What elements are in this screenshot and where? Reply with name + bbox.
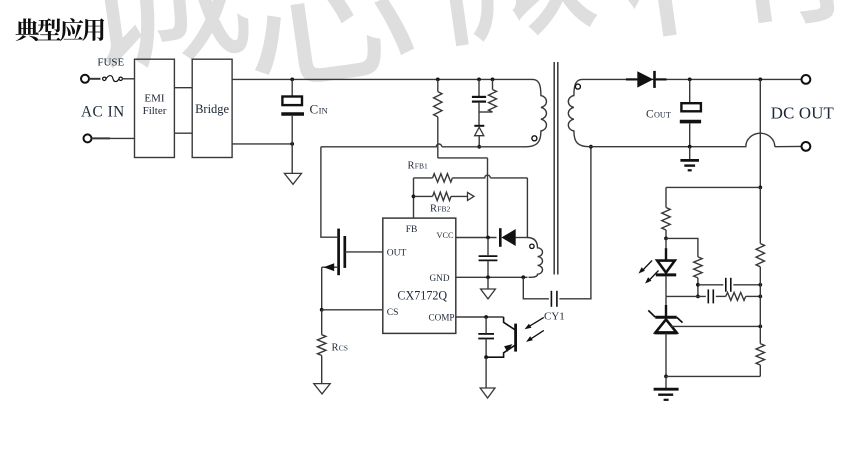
svg-text:CY1: CY1	[544, 311, 565, 323]
svg-text:CS: CS	[339, 343, 348, 352]
svg-text:FB: FB	[406, 225, 418, 235]
svg-text:OUT: OUT	[654, 110, 671, 119]
svg-text:COMP: COMP	[428, 312, 454, 322]
svg-text:CX7172Q: CX7172Q	[397, 288, 447, 302]
svg-text:Bridge: Bridge	[195, 102, 229, 116]
svg-text:R: R	[430, 203, 437, 214]
svg-text:AC IN: AC IN	[81, 104, 125, 121]
svg-text:DC OUT: DC OUT	[771, 104, 834, 123]
svg-text:R: R	[408, 160, 415, 171]
svg-text:R: R	[332, 342, 339, 353]
svg-text:IN: IN	[319, 105, 329, 115]
svg-text:CS: CS	[387, 308, 399, 318]
svg-text:VCC: VCC	[436, 231, 454, 240]
svg-text:FB1: FB1	[415, 161, 428, 170]
svg-text:C: C	[310, 101, 319, 116]
svg-text:C: C	[646, 108, 654, 120]
svg-text:Filter: Filter	[143, 105, 167, 117]
svg-text:OUT: OUT	[387, 249, 407, 259]
svg-text:FUSE: FUSE	[97, 57, 124, 69]
svg-text:FB2: FB2	[437, 204, 450, 213]
svg-text:EMI: EMI	[144, 92, 165, 104]
svg-text:GND: GND	[430, 273, 450, 283]
